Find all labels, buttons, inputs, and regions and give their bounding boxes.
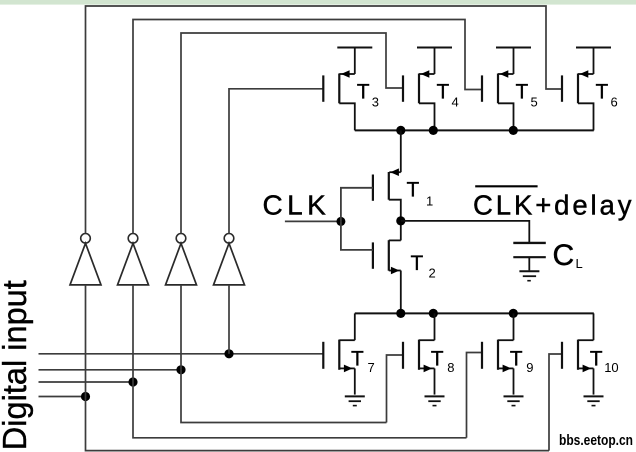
svg-text:C: C (553, 239, 575, 272)
transistor T9 (NMOS) (482, 313, 533, 394)
svg-text:T: T (407, 178, 420, 201)
svg-text:T: T (411, 252, 424, 275)
transistor T7 (NMOS) (323, 313, 374, 394)
wire: INV2 input from line3 (132, 285, 134, 382)
wire: line4 down to bottom run toward T10 gate (86, 397, 550, 451)
label CLK (263, 190, 331, 221)
svg-text:T: T (357, 80, 370, 103)
capacitor CL (513, 239, 582, 272)
svg-text:Digital input: Digital input (0, 280, 33, 450)
node: junction line3 / INV2 input (128, 377, 137, 386)
transistor T5 (PMOS) (482, 48, 538, 131)
transistor T3 (PMOS) (323, 48, 379, 131)
svg-text:T: T (351, 347, 364, 370)
wire: digital input line 2 (to inverter INV3 and T8 gate) (39, 369, 182, 371)
wire: riser to T8 gate (387, 355, 404, 423)
wire: INV3 input from line2 (180, 285, 182, 370)
wire: top drain rail (355, 129, 594, 131)
wire: INV1 output up and over to T6 gate (86, 6, 563, 234)
ground (T9) (504, 396, 524, 405)
label: Digital input (0, 280, 33, 450)
wire: digital input line 3 (to inverter INV2 and T9 gate) (39, 381, 134, 383)
wire: CLK to T2 gate (341, 221, 373, 250)
svg-text:T: T (516, 80, 529, 103)
ground (capacitor CL) (519, 271, 539, 281)
node: junction line4 / INV1 input (81, 392, 90, 401)
svg-text:3: 3 (372, 95, 379, 110)
svg-text:2: 2 (429, 265, 436, 280)
wire: INV4 output up and over to T3 gate (229, 89, 323, 234)
node: T4 drain on top rail (429, 126, 438, 135)
ground (T10) (584, 396, 604, 405)
svg-text:L: L (576, 256, 583, 271)
svg-text:8: 8 (447, 360, 454, 375)
svg-text:T: T (431, 347, 444, 370)
svg-text:T: T (596, 80, 609, 103)
svg-text:T: T (590, 347, 603, 370)
node: T5 drain on top rail (509, 126, 518, 135)
wire: line2 down to bottom run toward T8 gate (181, 370, 387, 423)
wire: INV2 output up and over to T5 gate (133, 20, 482, 234)
svg-text:10: 10 (604, 360, 618, 375)
wire: bottom source rail (355, 312, 594, 314)
inverter INV2 (118, 234, 149, 285)
node: junction line1 / INV4 input (224, 349, 233, 358)
inverter INV3 (166, 234, 197, 285)
transistor T8 (NMOS) (403, 313, 454, 394)
wire: CLK to T1 gate (341, 188, 373, 222)
transistor T4 (PMOS) (403, 48, 459, 131)
wire: riser to T10 gate (549, 354, 562, 451)
svg-text:4: 4 (452, 95, 459, 110)
svg-text:6: 6 (611, 95, 618, 110)
ground (T8) (425, 396, 445, 405)
node: output node between T1 and T2 (396, 216, 405, 225)
wire: INV1 input from line4 (85, 285, 87, 397)
svg-text:9: 9 (526, 360, 533, 375)
svg-text:CLK+delay: CLK+delay (473, 190, 634, 221)
node: T8 source on bottom rail (429, 309, 438, 318)
node: T1 tap on top rail (396, 126, 405, 135)
wire: CLK input stub (285, 220, 341, 222)
svg-text:7: 7 (368, 360, 375, 375)
transistor T2 (pass, lower) (373, 221, 436, 314)
wire: digital input line 4 (to inverter INV1 and T10 gate) (39, 396, 86, 398)
node: junction line2 / INV3 input (176, 365, 185, 374)
node: CLK gate junction (336, 217, 345, 226)
svg-text:T: T (437, 80, 450, 103)
label CLKbar+delay with overline (473, 186, 634, 220)
ground (T7) (345, 396, 365, 405)
transistor T1 (pass, upper) (373, 130, 433, 221)
wire: INV4 input from line1 (228, 285, 230, 354)
node: T2 tap on bottom rail (396, 309, 405, 318)
wire: digital input line 1 (to T7 gate and inverter INV4) (39, 353, 324, 355)
svg-text:bbs.eetop.cn: bbs.eetop.cn (559, 432, 633, 449)
transistor T10 (NMOS) (562, 313, 619, 394)
svg-text:CLK: CLK (263, 190, 331, 221)
watermark bbs.eetop.cn (559, 432, 633, 449)
svg-text:1: 1 (426, 194, 433, 209)
wire: INV3 output up and over to T4 gate (181, 33, 403, 234)
wire: output to load (401, 221, 530, 243)
wire: line3 down to bottom run toward T9 gate (133, 382, 467, 438)
inverter INV4 (214, 234, 245, 285)
node: T9 source on bottom rail (509, 309, 518, 318)
svg-text:5: 5 (531, 95, 538, 110)
svg-text:T: T (510, 347, 523, 370)
transistor T6 (PMOS) (562, 48, 618, 131)
inverter INV1 (70, 234, 101, 285)
wire: riser to T9 gate (467, 353, 483, 438)
